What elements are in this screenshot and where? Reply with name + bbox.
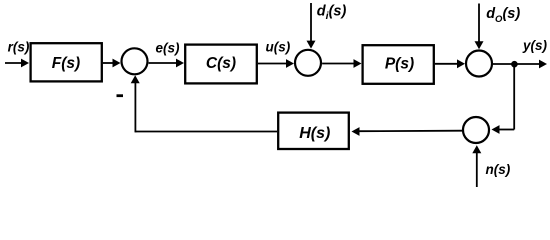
wire P(s) to summing junction 3 bbox=[435, 63, 458, 65]
wire pickoff to summing junction 4 bbox=[499, 129, 514, 131]
wire H(s) back to summing junction 1 (feedback) bbox=[135, 131, 277, 133]
wire d_O(s) disturbance arrow into summing junction 3 bbox=[478, 4, 480, 43]
wire summing junction 3 to output y(s) bbox=[492, 63, 540, 65]
svg-text:n(s): n(s) bbox=[486, 162, 511, 177]
svg-text:F(s): F(s) bbox=[52, 55, 80, 72]
summing junction 4 bbox=[463, 117, 489, 143]
block P(s) bbox=[363, 45, 434, 84]
wire summing junction 4 to H(s) bbox=[359, 130, 463, 133]
summing junction 2 bbox=[295, 50, 321, 76]
wire d_i(s) disturbance arrow into summing junction 2 bbox=[310, 3, 312, 42]
svg-text:y(s): y(s) bbox=[522, 38, 548, 53]
wire summing junction 2 to P(s) bbox=[322, 63, 354, 65]
summing junction 3 bbox=[466, 51, 492, 77]
minus sign at summing junction 1 bbox=[117, 94, 124, 97]
svg-text:u(s): u(s) bbox=[266, 40, 291, 55]
svg-text:C(s): C(s) bbox=[206, 55, 236, 72]
svg-text:e(s): e(s) bbox=[156, 40, 181, 55]
wire r(s) input arrow into F(s) bbox=[5, 62, 22, 64]
svg-text:P(s): P(s) bbox=[385, 56, 414, 73]
wire F(s) to summing junction 1 bbox=[103, 62, 114, 64]
wire n(s) input arrow into summing junction 4 bbox=[476, 153, 478, 188]
junction pickoff dot bbox=[511, 61, 518, 68]
block H(s) bbox=[278, 113, 349, 149]
wire summing junction 1 to C(s) bbox=[149, 62, 177, 64]
svg-text:H(s): H(s) bbox=[299, 125, 330, 142]
svg-text:r(s): r(s) bbox=[8, 40, 30, 55]
wire C(s) to summing junction 2 bbox=[258, 63, 287, 65]
block F(s) bbox=[31, 43, 102, 81]
wire pickoff vertical drop bbox=[513, 64, 515, 130]
block C(s) bbox=[185, 45, 257, 84]
svg-text:di(s): di(s) bbox=[317, 4, 347, 22]
summing junction 1 bbox=[122, 48, 148, 74]
